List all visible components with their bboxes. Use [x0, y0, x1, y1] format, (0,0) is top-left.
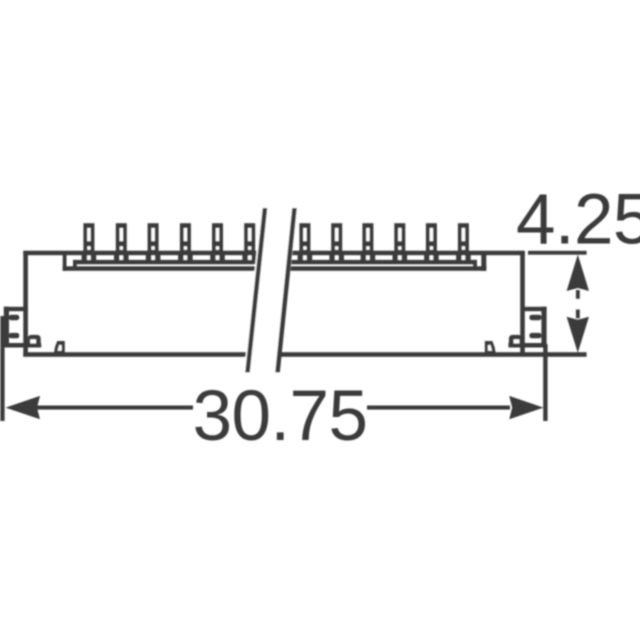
svg-text:30.75: 30.75 [193, 377, 368, 456]
connector body top edge [23, 251, 525, 256]
pin 1 [82, 223, 97, 261]
pin rail right wall [481, 254, 486, 271]
pin 11 [424, 223, 439, 261]
right mounting tab spine [541, 307, 546, 348]
pin 4 [178, 223, 193, 261]
shelf right hook [473, 260, 477, 270]
connector body right edge [520, 251, 525, 357]
pin 9 [361, 223, 376, 261]
left bracket [28, 335, 41, 348]
break white band [244, 204, 299, 376]
30.75 right extension line [543, 344, 547, 421]
right tab short arm 1 [529, 315, 541, 320]
right tab top arm [522, 307, 547, 311]
shelf left hook [73, 260, 77, 270]
connector body left edge [23, 251, 28, 357]
pin 8 [329, 223, 344, 261]
left tab bottom arm [4, 343, 41, 348]
pin 2 [114, 223, 129, 261]
left tab top arm [4, 307, 28, 311]
30.75 left arrow [6, 396, 41, 419]
left bracket hole [30, 339, 36, 343]
svg-text:4.25: 4.25 [516, 181, 640, 260]
pin 3 [146, 223, 161, 261]
connector body bottom edge plus 4.25 bottom extension line [23, 352, 586, 357]
right standoff wedge [485, 341, 496, 354]
pin 7 [298, 223, 313, 261]
right bracket [509, 335, 522, 348]
pin 5 [210, 223, 225, 261]
left mounting tab spine [4, 307, 9, 348]
left tab short arm 1 [9, 315, 20, 320]
pin rail shelf line [73, 260, 477, 264]
pin rail bottom line [63, 266, 487, 271]
30.75 right arrow [509, 396, 543, 419]
break line 1 [245, 208, 267, 373]
pin 12 [456, 223, 471, 261]
right bracket hole [514, 339, 520, 343]
4.25 up arrow [567, 255, 589, 292]
30.75 dimension line left segment [36, 406, 193, 410]
pin rail left wall [63, 254, 67, 271]
30.75 dimension line right segment [367, 406, 510, 410]
30.75 left extension line [0, 316, 4, 421]
pin 6 [242, 223, 257, 261]
left standoff wedge [54, 341, 65, 354]
4.25 down arrow [576, 310, 580, 319]
right tab bottom arm [508, 343, 545, 348]
right tab short arm 2 [529, 333, 541, 338]
pin 10 [393, 223, 408, 261]
left tab short arm 2 [9, 333, 20, 338]
break line 2 [275, 208, 297, 373]
4.25 top extension line [528, 251, 587, 255]
